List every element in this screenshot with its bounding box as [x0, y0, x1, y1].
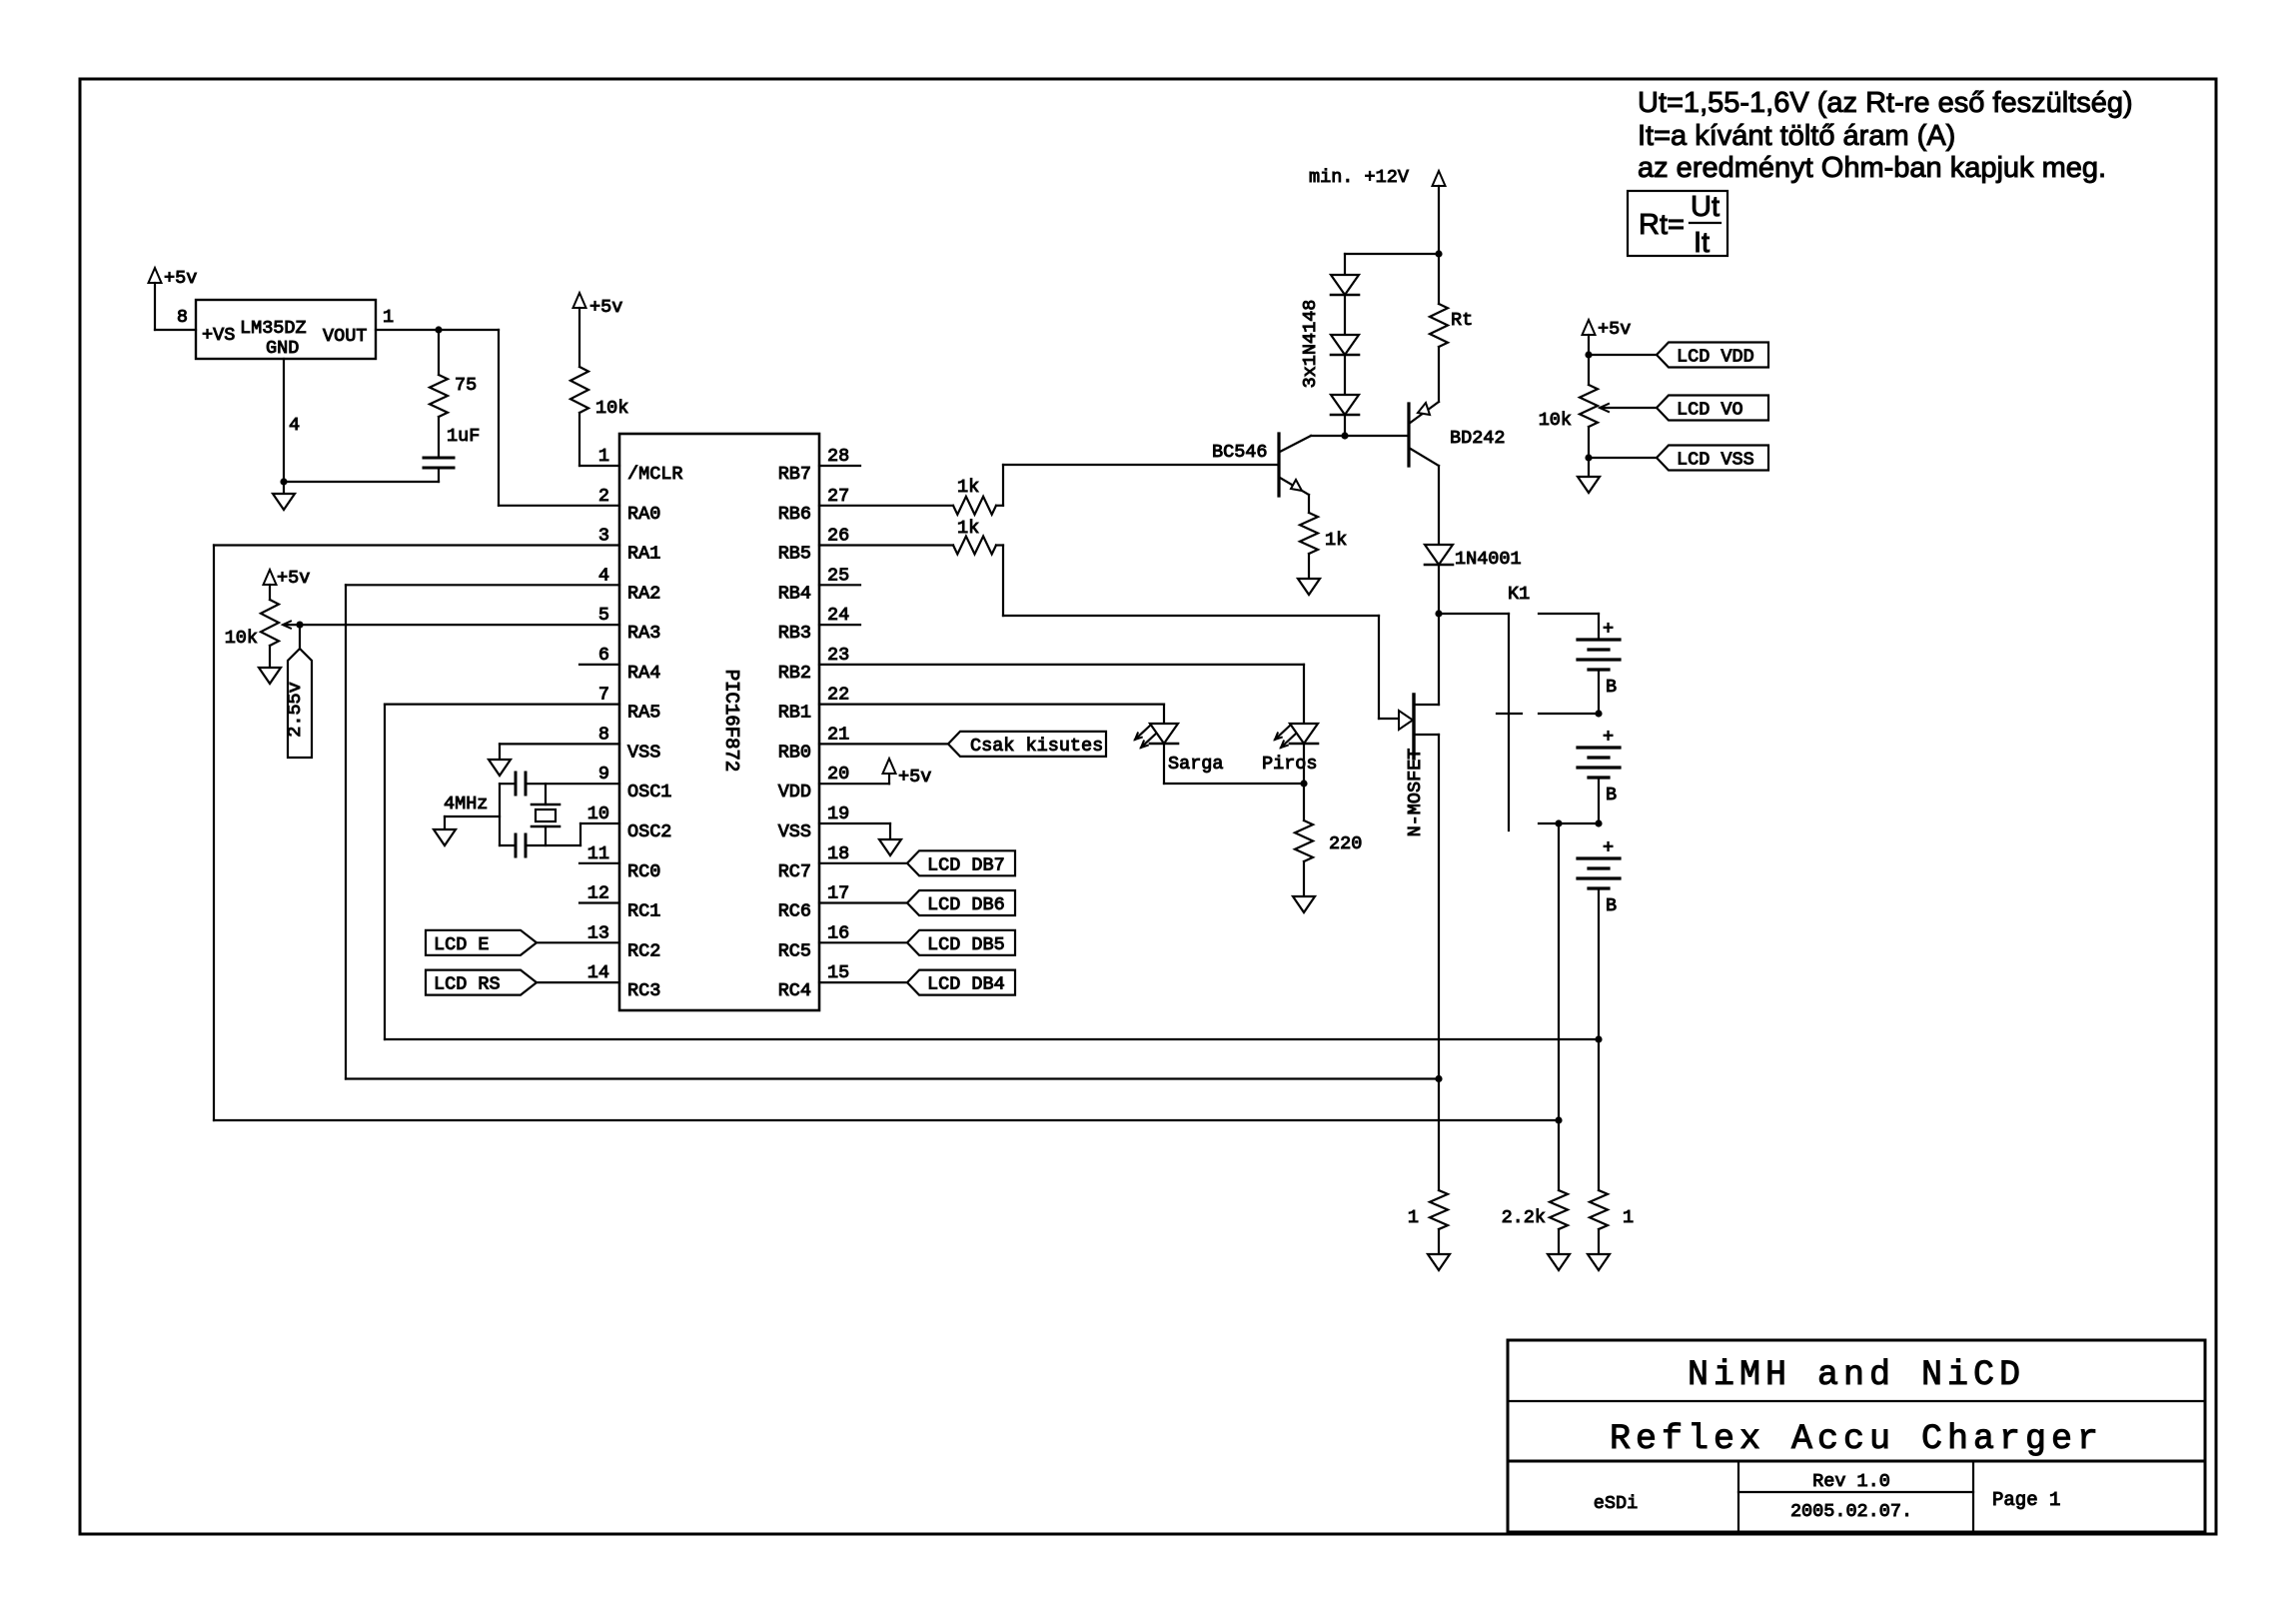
- wire RB2 to LED Piros: [819, 665, 1304, 724]
- svg-text:RA1: RA1: [627, 544, 660, 565]
- svg-text:1uF: 1uF: [447, 426, 480, 447]
- svg-text:LCD VDD: LCD VDD: [1677, 347, 1754, 368]
- wire cap2 to OSC2: [527, 823, 619, 845]
- svg-text:RB1: RB1: [778, 703, 811, 724]
- capacitor 1uF: [424, 426, 480, 468]
- wire B1 to node: [1598, 670, 1600, 714]
- svg-text:RC5: RC5: [778, 940, 811, 961]
- wire B3 down: [1598, 888, 1600, 1190]
- resistor 1k (RB6): [953, 477, 996, 515]
- svg-text:OSC2: OSC2: [627, 821, 671, 842]
- wire Rt to BD242 emitter: [1438, 347, 1440, 402]
- resistor 75: [430, 375, 477, 417]
- svg-text:LCD DB5: LCD DB5: [927, 934, 1005, 955]
- svg-text:5: 5: [598, 605, 609, 626]
- svg-text:RB3: RB3: [778, 623, 811, 644]
- svg-text:LCD E: LCD E: [434, 934, 490, 955]
- svg-text:8: 8: [177, 307, 188, 328]
- capacitor C osc1: [516, 773, 526, 795]
- +5v power symbol (VDD): [819, 759, 931, 788]
- LED D6 Piros: [1262, 724, 1318, 775]
- title block frame: [1508, 1340, 2205, 1532]
- svg-text:1: 1: [598, 446, 609, 467]
- note line 3: [1638, 152, 2106, 184]
- svg-text:VOUT: VOUT: [323, 326, 367, 347]
- svg-text:2005.02.07.: 2005.02.07.: [1790, 1501, 1912, 1522]
- wire Piros cathode: [1303, 744, 1305, 784]
- ground (VSS pin 8): [489, 744, 619, 776]
- wire RA1 sense loop: [214, 546, 1559, 1121]
- svg-text:10k: 10k: [1539, 410, 1572, 431]
- ground (shunt): [1428, 1229, 1450, 1270]
- svg-text:It: It: [1694, 227, 1710, 259]
- svg-text:LCD DB7: LCD DB7: [927, 854, 1005, 875]
- wire to diode string: [1345, 254, 1439, 275]
- wire RA2 sense loop: [346, 585, 1439, 1078]
- wire D2-D3: [1344, 355, 1346, 395]
- svg-text:+5v: +5v: [589, 297, 622, 318]
- svg-text:13: 13: [587, 922, 609, 943]
- svg-text:min. +12V: min. +12V: [1309, 167, 1409, 188]
- node wiper junction: [296, 622, 303, 629]
- resistor 1 (source shunt): [1408, 1190, 1448, 1229]
- ground (BC546): [1298, 554, 1320, 595]
- svg-text:N-MOSFET: N-MOSFET: [1405, 749, 1426, 837]
- title rev: [1812, 1471, 1890, 1492]
- ground (2.2k): [1548, 1229, 1570, 1270]
- wire D3 to base node: [1344, 415, 1346, 436]
- relay fixed contact mid: [1539, 713, 1599, 715]
- node diode-base junction: [1341, 432, 1348, 439]
- svg-text:NiMH and NiCD: NiMH and NiCD: [1688, 1355, 2025, 1395]
- wire 4MHz tap: [445, 816, 500, 829]
- node LED junction: [1300, 780, 1307, 787]
- node VOUT junction: [435, 326, 442, 333]
- svg-text:K1: K1: [1508, 584, 1530, 605]
- wire osc bottom: [500, 844, 515, 846]
- svg-text:4: 4: [598, 565, 609, 586]
- ground (VSS pin 19): [819, 823, 901, 855]
- transistor Q1 BC546: [1212, 434, 1311, 496]
- svg-text:23: 23: [827, 645, 849, 666]
- svg-text:+VS: +VS: [202, 325, 235, 346]
- svg-text:75: 75: [455, 375, 477, 396]
- pin 12 stub (RC1): [579, 901, 619, 903]
- formula box Rt=Ut/It: [1628, 191, 1727, 259]
- svg-text:RC7: RC7: [778, 861, 811, 882]
- wire node to relay: [1439, 613, 1509, 615]
- wire R75 to C1uF: [438, 417, 440, 458]
- wire 1N4001 to node: [1438, 565, 1440, 614]
- crystal 4MHz: [532, 784, 560, 845]
- svg-text:Csak kisutes: Csak kisutes: [970, 736, 1103, 757]
- wire C to gnd rail: [284, 468, 439, 482]
- resistor 2.2k: [1502, 1190, 1568, 1229]
- microcontroller U1 PIC16F872: [619, 434, 819, 1010]
- svg-text:4: 4: [289, 415, 300, 436]
- svg-text:Ut: Ut: [1691, 191, 1720, 223]
- +5v power symbol (LCD): [1583, 319, 1632, 355]
- svg-text:12: 12: [587, 883, 609, 904]
- pin 25 stub (RB4): [819, 584, 860, 586]
- svg-text:+: +: [1603, 619, 1614, 640]
- wire BC546 emitter to R1k: [1308, 495, 1310, 513]
- wire BD242 collector to 1N4001: [1438, 466, 1440, 545]
- wire to pot: [1588, 355, 1590, 385]
- svg-text:RB0: RB0: [778, 742, 811, 763]
- svg-text:az eredményt Ohm-ban kapjuk me: az eredményt Ohm-ban kapjuk meg.: [1638, 152, 2106, 184]
- wire B2 to node: [1598, 778, 1600, 823]
- svg-text:24: 24: [827, 605, 849, 626]
- svg-text:2.2k: 2.2k: [1502, 1207, 1546, 1228]
- osc rail: [499, 784, 501, 845]
- svg-text:RC2: RC2: [627, 940, 660, 961]
- wire to R220: [1303, 784, 1305, 820]
- svg-text:LCD DB4: LCD DB4: [927, 974, 1005, 995]
- wire drain: [1415, 614, 1439, 705]
- wire +5v to LM35 pin 8: [155, 329, 196, 331]
- LED D5 Sarga: [1135, 724, 1224, 775]
- wire D1-D2: [1344, 295, 1346, 335]
- svg-text:RC0: RC0: [627, 861, 660, 882]
- svg-text:LCD VSS: LCD VSS: [1677, 450, 1754, 471]
- potentiometer 10k (contrast): [1539, 385, 1657, 431]
- svg-text:Sarga: Sarga: [1168, 754, 1224, 775]
- svg-text:Rev 1.0: Rev 1.0: [1812, 1471, 1890, 1492]
- svg-text:OSC1: OSC1: [627, 782, 671, 803]
- svg-text:2.55v: 2.55v: [285, 682, 306, 738]
- wire R1k to BC546 base: [996, 465, 1279, 506]
- svg-text:+: +: [1603, 837, 1614, 858]
- label 4MHz: [444, 794, 488, 814]
- node B2-B3: [1595, 819, 1602, 826]
- svg-text:17: 17: [827, 883, 849, 904]
- svg-text:RA3: RA3: [627, 623, 660, 644]
- node 2.2k branch: [1555, 819, 1562, 826]
- node drain junction: [1435, 610, 1442, 617]
- diode D1 1N4148: [1331, 275, 1359, 295]
- wire +12V to Rt: [1438, 254, 1440, 304]
- pin 28 stub (RB7): [819, 465, 860, 467]
- net tag LCD VO: [1657, 396, 1768, 421]
- node gnd junction: [280, 478, 287, 485]
- svg-text:1: 1: [383, 307, 394, 328]
- svg-text:3x1N4148: 3x1N4148: [1300, 300, 1321, 389]
- svg-text:220: 220: [1329, 833, 1362, 854]
- ground (R220): [1293, 861, 1315, 912]
- pin 24 stub (RB3): [819, 624, 860, 626]
- +12V power symbol: [1433, 171, 1446, 254]
- svg-text:RB2: RB2: [778, 663, 811, 684]
- svg-text:Page 1: Page 1: [1992, 1489, 2060, 1511]
- wire Sarga cathode: [1164, 744, 1304, 784]
- wire RB6 to R1k: [819, 505, 953, 507]
- pin number 1: [383, 307, 394, 328]
- wire R1k to MOSFET gate: [996, 546, 1399, 720]
- svg-text:16: 16: [827, 922, 849, 943]
- title line 2: [1610, 1419, 2103, 1459]
- title author eSDi: [1594, 1493, 1638, 1514]
- svg-text:21: 21: [827, 724, 849, 745]
- relay fixed contact top: [1539, 614, 1599, 640]
- wire source: [1415, 735, 1439, 1190]
- svg-text:3: 3: [598, 526, 609, 547]
- svg-text:1k: 1k: [1325, 530, 1347, 551]
- diode D2 1N4148: [1331, 335, 1359, 355]
- svg-text:18: 18: [827, 843, 849, 864]
- title line 1: [1688, 1355, 2025, 1395]
- wire RB1 to LED Sarga: [819, 705, 1164, 724]
- relay contact K1 lever: [1497, 614, 1522, 830]
- svg-text:RB6: RB6: [778, 504, 811, 525]
- svg-text:GND: GND: [266, 338, 299, 359]
- svg-text:6: 6: [598, 645, 609, 666]
- label K1: [1508, 584, 1530, 605]
- ground (battery divider): [1588, 1229, 1610, 1270]
- node RA5-battery junction: [1595, 1035, 1602, 1042]
- svg-text:B: B: [1606, 677, 1617, 698]
- wire 2.2k: [1558, 823, 1560, 1190]
- wire RB5 to R1k: [819, 544, 953, 546]
- resistor 1k (BC546 emitter): [1300, 513, 1347, 554]
- svg-text:22: 22: [827, 685, 849, 706]
- pin number 4: [289, 415, 300, 436]
- svg-text:LCD VO: LCD VO: [1677, 400, 1743, 421]
- net tag LCD DB7: [819, 850, 1015, 875]
- battery B3: [1578, 837, 1620, 916]
- ground (LM35): [273, 482, 295, 510]
- label min +12V: [1309, 167, 1409, 188]
- transistor Q3 N-MOSFET: [1399, 695, 1426, 836]
- svg-text:2: 2: [598, 486, 609, 507]
- svg-text:1: 1: [1623, 1207, 1634, 1228]
- svg-text:28: 28: [827, 446, 849, 467]
- wire OSC1: [527, 783, 619, 785]
- temperature sensor U2 LM35DZ: [196, 300, 376, 359]
- svg-text:BD242: BD242: [1450, 428, 1506, 449]
- resistor 10k (MCLR pull-up): [571, 367, 628, 419]
- resistor 1 (battery divider): [1590, 1190, 1634, 1229]
- battery B1: [1578, 619, 1620, 698]
- svg-text:8: 8: [598, 724, 609, 745]
- wire cap1 to rail: [500, 783, 515, 785]
- svg-text:26: 26: [827, 526, 849, 547]
- pin 11 stub (RC0): [579, 862, 619, 864]
- svg-text:1k: 1k: [957, 518, 979, 539]
- svg-text:VSS: VSS: [778, 821, 811, 842]
- net tag LCD E: [426, 930, 619, 955]
- svg-text:VDD: VDD: [778, 782, 811, 803]
- node LCD VDD tap: [1585, 351, 1592, 358]
- svg-text:RC3: RC3: [627, 980, 660, 1001]
- svg-text:10k: 10k: [595, 398, 628, 419]
- svg-text:BC546: BC546: [1212, 442, 1268, 463]
- svg-text:19: 19: [827, 804, 849, 824]
- svg-text:/MCLR: /MCLR: [627, 464, 683, 485]
- +5v power symbol (LM35): [149, 268, 198, 330]
- svg-text:It=a kívánt töltő áram (A): It=a kívánt töltő áram (A): [1638, 120, 1955, 152]
- wire LM35 GND pin: [283, 359, 285, 482]
- svg-text:RC6: RC6: [778, 901, 811, 922]
- svg-text:+5v: +5v: [898, 767, 931, 788]
- svg-text:+5v: +5v: [164, 268, 197, 289]
- pin labels and numbers: [587, 446, 849, 1001]
- svg-text:Reflex Accu Charger: Reflex Accu Charger: [1610, 1419, 2103, 1459]
- node LCD VSS tap: [1585, 454, 1592, 461]
- net tag Csak kisutes: [819, 732, 1106, 757]
- svg-text:20: 20: [827, 764, 849, 785]
- svg-text:LM35DZ: LM35DZ: [240, 318, 307, 339]
- wire LM35 VOUT to RA0: [376, 330, 619, 506]
- wire BC546 collector: [1311, 435, 1409, 437]
- svg-text:RA4: RA4: [627, 663, 660, 684]
- ground (osc): [434, 829, 456, 845]
- potentiometer 10k (setpoint): [225, 600, 300, 649]
- svg-text:+: +: [1603, 727, 1614, 748]
- svg-text:B: B: [1606, 785, 1617, 806]
- svg-text:B: B: [1606, 895, 1617, 916]
- pin number 8: [177, 307, 188, 328]
- resistor 1k (RB5): [953, 518, 996, 555]
- node RA2-source junction: [1435, 1075, 1442, 1082]
- svg-text:1: 1: [1408, 1207, 1419, 1228]
- svg-text:1k: 1k: [957, 477, 979, 498]
- svg-text:+5v: +5v: [277, 568, 310, 589]
- resistor Rt: [1430, 304, 1473, 347]
- svg-text:15: 15: [827, 962, 849, 983]
- net tag LCD RS: [426, 970, 619, 995]
- title date: [1790, 1501, 1912, 1522]
- +5v power symbol (MCLR): [574, 293, 623, 367]
- svg-text:RA5: RA5: [627, 703, 660, 724]
- wire RA5 sense loop: [385, 705, 1599, 1039]
- svg-text:Ut=1,55-1,6V (az Rt-re eső fes: Ut=1,55-1,6V (az Rt-re eső feszültség): [1638, 87, 2133, 119]
- svg-text:RA2: RA2: [627, 583, 660, 604]
- svg-text:RA0: RA0: [627, 504, 660, 525]
- svg-text:RC4: RC4: [778, 980, 811, 1001]
- diode D3 1N4148: [1331, 395, 1359, 415]
- svg-text:RB4: RB4: [778, 583, 811, 604]
- pin 6 stub (RA4): [579, 664, 619, 666]
- svg-text:9: 9: [598, 764, 609, 785]
- svg-text:4MHz: 4MHz: [444, 794, 488, 814]
- ground (LCD): [1578, 458, 1600, 493]
- svg-text:25: 25: [827, 565, 849, 586]
- net tag LCD VDD: [1589, 343, 1768, 368]
- resistor 220: [1295, 820, 1362, 861]
- svg-text:RB7: RB7: [778, 464, 811, 485]
- svg-text:10: 10: [587, 804, 609, 824]
- diode D4 1N4001: [1425, 545, 1522, 570]
- svg-text:LCD RS: LCD RS: [434, 974, 501, 995]
- transistor Q2 BD242: [1409, 402, 1506, 466]
- svg-text:+5v: +5v: [1598, 319, 1631, 340]
- svg-text:10k: 10k: [225, 628, 258, 649]
- node RA1-2.2k junction: [1555, 1116, 1562, 1123]
- svg-text:1N4001: 1N4001: [1455, 549, 1522, 570]
- svg-text:PIC16F872: PIC16F872: [720, 670, 742, 773]
- label 3x1N4148: [1300, 300, 1321, 389]
- svg-text:VSS: VSS: [627, 742, 660, 763]
- svg-text:LCD DB6: LCD DB6: [927, 894, 1005, 915]
- net tag LCD VSS: [1589, 446, 1768, 471]
- net tag LCD DB6: [819, 890, 1015, 915]
- net tag 2.55v: [285, 625, 312, 758]
- node B1-B2: [1595, 710, 1602, 717]
- svg-text:11: 11: [587, 843, 609, 864]
- note line 1: [1638, 87, 2133, 119]
- svg-text:RC1: RC1: [627, 901, 660, 922]
- svg-text:27: 27: [827, 486, 849, 507]
- relay fixed contact bottom: [1539, 822, 1599, 824]
- wire pot wiper to RA3: [300, 624, 619, 626]
- +5v power symbol (pot): [264, 568, 311, 600]
- svg-text:Piros: Piros: [1262, 754, 1318, 775]
- wire 10k to MCLR pin 1: [579, 413, 619, 466]
- svg-text:eSDi: eSDi: [1594, 1493, 1638, 1514]
- svg-text:Rt: Rt: [1451, 310, 1473, 331]
- svg-text:7: 7: [598, 685, 609, 706]
- net tag LCD DB5: [819, 930, 1015, 955]
- ground (pot): [259, 646, 281, 684]
- wire pot to VSS tap: [1588, 427, 1590, 458]
- svg-text:RB5: RB5: [778, 544, 811, 565]
- note line 2: [1638, 120, 1955, 152]
- node +12V branch: [1435, 250, 1442, 257]
- svg-text:Rt=: Rt=: [1639, 209, 1685, 241]
- capacitor C osc2: [516, 834, 526, 856]
- wire VOUT to R75: [438, 330, 440, 375]
- title page: [1992, 1489, 2060, 1511]
- battery B2: [1578, 727, 1620, 806]
- svg-text:14: 14: [587, 962, 609, 983]
- net tag LCD DB4: [819, 970, 1015, 995]
